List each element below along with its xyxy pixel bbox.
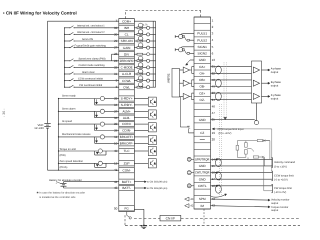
internal rail from scaler	[180, 97, 188, 127]
svg-text:A-CLR: A-CLR	[122, 72, 132, 76]
receiver triangle A-phase	[253, 67, 259, 73]
photocoupler SIGN	[175, 47, 194, 55]
pin 6 cell SIGN2 row 5	[194, 50, 214, 56]
CZ open collector transistor	[187, 126, 194, 133]
input switch bus	[64, 28, 66, 87]
svg-text:(0 to ±10V): (0 to ±10V)	[274, 165, 287, 168]
CN I/F label box	[160, 215, 181, 221]
switch and wire for GAIN input	[64, 44, 119, 48]
svg-text:Internal vel. cmd select 2: Internal vel. cmd select 2	[77, 31, 105, 34]
svg-text:OZ+: OZ+	[199, 91, 205, 95]
svg-text:CWTL/TRQR: CWTL/TRQR	[195, 171, 210, 175]
svg-text:50: 50	[114, 206, 118, 210]
svg-text:CL: CL	[125, 33, 129, 37]
pin 8 cell CWL	[116, 85, 135, 90]
CCW torque pair wires	[211, 172, 273, 180]
svg-text:• CN I/F Wiring for Velocity C: • CN I/F Wiring for Velocity Control	[3, 10, 77, 15]
svg-text:is installed at the controller: is installed at the controller side	[39, 196, 76, 199]
label CCW torque limit	[271, 171, 294, 182]
svg-text:OA-: OA-	[199, 71, 205, 75]
resistor and photocoupler for C-MODE	[134, 63, 155, 69]
label battery for absolute encoder	[49, 179, 82, 184]
pin 35 cell S-RDY+	[114, 96, 134, 101]
svg-text:CWTL: CWTL	[198, 184, 207, 188]
pin 17 cell GND row 24	[194, 176, 215, 181]
svg-text:ZEROSPD: ZEROSPD	[120, 59, 134, 63]
pin 9 cell CCWL	[116, 78, 135, 83]
velocity monitor output	[211, 199, 290, 205]
pin 16 cell CWTL/TRQR row 23	[194, 169, 215, 174]
open collector transistor box BRKOFF	[148, 136, 156, 145]
pin 13 cell GND row 6	[194, 57, 215, 63]
svg-text:43: 43	[190, 198, 193, 201]
pin 29 cell SRV-ON	[114, 38, 134, 43]
title	[3, 10, 77, 15]
svg-text:output: output	[271, 209, 278, 212]
pin 50 cell FG	[114, 206, 134, 211]
connector CN I/F left column outline	[119, 19, 135, 212]
analog input amp SPR	[187, 157, 194, 161]
svg-text:output: output	[271, 202, 278, 205]
switch and wire for CL input	[64, 31, 119, 35]
switch and wire for C-MODE input	[64, 64, 119, 68]
svg-text:BRKOFF-: BRKOFF-	[120, 142, 134, 146]
open collector transistor box S-RDY	[148, 97, 156, 106]
page number	[2, 108, 6, 117]
resistor and photocoupler for GAIN	[134, 43, 155, 49]
monitor amp IM	[185, 204, 194, 208]
cable shield arrow bottom	[211, 194, 227, 197]
svg-text:At-speed: At-speed	[62, 120, 73, 123]
analog input amp CWTL18	[187, 184, 194, 188]
wire ZSP pin to box	[134, 162, 148, 164]
connector CN I/F right column outline	[194, 17, 211, 209]
svg-text:OZ-: OZ-	[200, 98, 205, 102]
dashed column continuation	[203, 209, 205, 225]
svg-text:Internal vel. cmd select 1: Internal vel. cmd select 1	[77, 25, 105, 28]
svg-text:(P10A): (P10A)	[60, 166, 68, 169]
pin 37 cell ALM+	[114, 109, 134, 114]
svg-text:4.7k: 4.7k	[143, 24, 148, 27]
battery VDC 12-24V	[34, 123, 50, 130]
resistor and photocoupler for CWL	[134, 83, 155, 89]
input arrow CWTL16	[215, 172, 217, 174]
B-phase output arrow	[262, 81, 282, 87]
pin 32 cell C-MODE	[114, 65, 134, 70]
open collector transistor box ALM	[148, 110, 156, 119]
svg-text:FG: FG	[124, 207, 129, 211]
relay coil and diode for At-speed output	[58, 120, 119, 130]
pin 41 cell COM-	[114, 168, 134, 173]
line receiver box	[252, 61, 262, 103]
svg-text:BRKOFF+: BRKOFF+	[120, 135, 134, 139]
pin 23 cell OZ+ row 11	[194, 90, 215, 96]
svg-text:BATT-: BATT-	[122, 186, 131, 190]
svg-text:42: 42	[190, 205, 193, 208]
svg-text:Scaler: Scaler	[166, 74, 170, 84]
svg-text:CW torque limit: CW torque limit	[274, 187, 292, 190]
pin 1 cell blank row 0	[194, 17, 214, 22]
pin 11 cell BRKOFF+	[114, 134, 134, 139]
DIV fork wire from ZEROSPD switch	[112, 53, 156, 61]
resistor and photocoupler for CL	[134, 30, 155, 36]
pin nc cell blank row 20	[194, 148, 211, 150]
relay output common rail	[58, 99, 59, 171]
resistor and photocoupler for INH	[134, 23, 155, 29]
pin 48 cell OB+ row 9	[194, 77, 215, 82]
label CW torque limit	[271, 184, 292, 194]
svg-text:GND: GND	[199, 58, 207, 62]
svg-text:OB-: OB-	[199, 85, 205, 89]
enclosure dashed border A	[134, 218, 300, 220]
svg-text:12~24V: 12~24V	[34, 126, 44, 130]
svg-text:ZSP: ZSP	[124, 162, 130, 166]
pin 31 cell A-CLR	[114, 71, 134, 76]
pin 4 cell PULS2 row 3	[194, 37, 214, 42]
svg-text:Servo alarm: Servo alarm	[62, 107, 75, 110]
svg-text:CCW overtravel inhibit: CCW overtravel inhibit	[78, 77, 103, 80]
svg-text:output: output	[271, 71, 279, 74]
pin 42 cell IM row 28	[194, 202, 215, 209]
svg-text:INH: INH	[124, 26, 129, 30]
svg-text:GND: GND	[199, 177, 207, 181]
svg-text:to CN SIG.(9th pin): to CN SIG.(9th pin)	[147, 181, 168, 184]
A-phase output arrow	[262, 68, 282, 74]
CW torque wires	[211, 158, 273, 194]
svg-text:output: output	[271, 84, 279, 87]
pin 20 cell &#8212; row 18	[194, 136, 215, 141]
pin 7 cell COM+	[116, 19, 135, 24]
relay coil and diode for Servo-ready output	[58, 95, 119, 105]
svg-text:Servo-ready: Servo-ready	[62, 95, 76, 98]
pin 22 cell OA- row 8	[194, 70, 215, 75]
svg-text:Battery for absolute encoder: Battery for absolute encoder	[49, 179, 82, 182]
svg-text:SIGN1: SIGN1	[198, 45, 208, 49]
GND arrow into scaler	[186, 60, 194, 65]
svg-text:OB+: OB+	[199, 78, 205, 82]
pin 14 cell SPR/TRQR row 21	[194, 156, 215, 162]
svg-text:SIGN2: SIGN2	[198, 52, 208, 56]
Z-phase output arrow	[262, 94, 282, 100]
wire COM+ to battery	[48, 21, 119, 123]
svg-text:TLC: TLC	[124, 149, 131, 153]
resistor and photocoupler for SRV-ON	[134, 36, 155, 42]
resistor and photocoupler for A-CLR	[134, 69, 155, 75]
svg-text:S-RDY-: S-RDY-	[121, 103, 133, 107]
pin 47 cell blank row 14	[194, 110, 215, 115]
pin 2 cell blank row 1	[194, 24, 214, 29]
pin 38 cell COIN-	[114, 128, 134, 133]
wires BRKOFF pins to box	[134, 137, 148, 143]
pin 28 cell DIV	[114, 52, 134, 57]
shield dotted lines lower	[219, 104, 221, 196]
pin 44 cell BATT+	[114, 179, 134, 184]
svg-text:PULS2: PULS2	[197, 38, 207, 42]
pin 3 cell PULS1 row 2	[194, 30, 214, 36]
pin 19 cell CZ row 17	[194, 130, 215, 136]
pin 26 cell ZEROSPD	[114, 58, 134, 63]
svg-text:COIN-: COIN-	[122, 129, 131, 133]
svg-text:CWL: CWL	[123, 85, 130, 89]
input arrow CWTL18	[215, 185, 217, 187]
svg-text:Alarm clear: Alarm clear	[82, 71, 95, 74]
pin 46 cell blank row 13	[194, 103, 215, 108]
svg-text:C-MODE: C-MODE	[121, 66, 133, 70]
open collector transistor box ZSP	[148, 159, 156, 168]
cable shield dotted lines	[224, 63, 227, 120]
svg-text:PULS1: PULS1	[197, 32, 207, 36]
svg-text:BATT+: BATT+	[122, 180, 132, 184]
battery for absolute encoder	[56, 181, 119, 188]
pin 30 cell CL	[114, 32, 134, 37]
scaler block	[172, 69, 180, 98]
svg-text:S-RDY+: S-RDY+	[121, 97, 133, 101]
svg-text:CZ: CZ	[200, 131, 204, 135]
svg-text:CCW torque limit input: CCW torque limit input	[218, 128, 244, 131]
photocoupler PULS	[175, 34, 194, 42]
resistor and photocoupler for ZEROSPD	[134, 56, 155, 62]
pin nc cell blank row 16	[194, 122, 211, 124]
open collector transistor box COIN	[148, 123, 156, 132]
svg-text:(0 to +10V): (0 to +10V)	[219, 132, 232, 135]
shielded cable dashed link (top)	[125, 10, 200, 18]
open collector transistor box TLC	[148, 146, 156, 155]
pin 36 cell ALM-	[114, 115, 134, 120]
svg-text:CCWL: CCWL	[122, 79, 131, 83]
svg-text:ALM+: ALM+	[123, 110, 131, 114]
note text	[37, 191, 86, 199]
svg-text:Control mode switching: Control mode switching	[79, 64, 106, 67]
pin nc cell blank row 26	[194, 188, 211, 190]
twisted pair cable A-phase	[211, 66, 252, 74]
svg-text:47: 47	[212, 111, 216, 115]
svg-text:(P09): (P09)	[60, 154, 66, 157]
pin 5 cell SIGN1 row 4	[194, 44, 214, 49]
svg-text:OA+: OA+	[199, 65, 205, 69]
svg-text:Fr.gear/DivGt gain switching: Fr.gear/DivGt gain switching	[75, 44, 107, 47]
wires BATT to CN SIG	[134, 181, 167, 184]
relay coil and diode for Mechanical brake release output	[58, 133, 119, 143]
pin 40 cell TLC	[114, 148, 134, 153]
receiver triangle Z-phase	[253, 93, 259, 99]
label velocity command input	[271, 158, 295, 169]
pin 10 cell BRKOFF-	[114, 141, 134, 146]
label Scaler	[166, 74, 170, 84]
switch and wire for INH input	[64, 25, 119, 29]
svg-text:19: 19	[212, 131, 216, 135]
svg-text:Velocity command: Velocity command	[274, 161, 296, 164]
svg-text:20: 20	[212, 138, 216, 142]
wires ALM pins to box	[134, 111, 148, 117]
pin nc cell blank row 19	[194, 142, 211, 144]
line driver B-phase	[180, 80, 195, 87]
receiver triangle B-phase	[253, 80, 259, 86]
analog input amp CWTL16	[187, 171, 194, 175]
svg-text:Speed zero clamp (P48): Speed zero clamp (P48)	[79, 58, 106, 61]
switch and wire for CWL input	[64, 84, 119, 88]
svg-text:Servo-ON: Servo-ON	[82, 38, 93, 41]
svg-text:(-10 to 0V): (-10 to 0V)	[274, 191, 286, 194]
pin 12 cell ZSP	[114, 161, 134, 166]
svg-text:GND: GND	[199, 118, 207, 122]
line driver A-phase	[180, 67, 195, 74]
torque monitor output	[211, 206, 289, 213]
svg-text:SPM: SPM	[199, 197, 206, 201]
relay coil and diode for ZSP output	[58, 160, 119, 169]
switch and wire for CCWL input	[64, 77, 119, 81]
svg-text:Mechanical brake release: Mechanical brake release	[62, 133, 91, 136]
pin 27 cell GAIN	[114, 45, 134, 50]
enclosure dashed border B	[125, 215, 300, 225]
pin 24 cell OZ- row 12	[194, 96, 215, 102]
svg-text:COM+: COM+	[122, 19, 131, 23]
svg-text:COM-: COM-	[122, 168, 130, 172]
line driver Z-phase	[180, 93, 195, 100]
svg-text:Torque in-Limit: Torque in-Limit	[60, 148, 77, 151]
svg-text:13: 13	[212, 58, 216, 62]
earth ground symbol	[141, 226, 147, 229]
twisted pair cable B-phase	[211, 79, 252, 87]
svg-text:CN I/F: CN I/F	[166, 217, 176, 221]
svg-text:output: output	[271, 98, 279, 101]
svg-text:to CN SIG.(6th pin): to CN SIG.(6th pin)	[147, 187, 168, 190]
FG bottom lead with terminal	[127, 212, 132, 219]
velocity command potentiometer circuit	[236, 139, 270, 166]
twisted pair cable Z-phase	[211, 92, 252, 100]
svg-text:SRV-ON: SRV-ON	[121, 39, 133, 43]
svg-text:46: 46	[212, 104, 216, 108]
svg-text:In case the battery for absolu: In case the battery for absolute encoder	[39, 191, 85, 194]
pin 34 cell S-RDY-	[114, 102, 134, 107]
svg-text:CCW torque limit: CCW torque limit	[274, 174, 294, 177]
svg-text:GAIN: GAIN	[123, 46, 131, 50]
switch and wire for ZEROSPD input	[64, 58, 119, 62]
relay coil and diode for TLC output	[58, 148, 119, 157]
wire TLC pin to box	[134, 150, 148, 152]
pin 43 cell SPM row 27	[194, 196, 215, 202]
svg-text:- 36 -: - 36 -	[2, 108, 6, 117]
monitor amp SPM	[185, 197, 194, 201]
svg-text:IM: IM	[200, 204, 204, 208]
svg-text:ALM-: ALM-	[123, 116, 130, 120]
wire GND25 to shield terminal	[211, 103, 259, 125]
svg-text:CW overtravel inhibit: CW overtravel inhibit	[79, 84, 102, 87]
wires S-RDY pins to box	[134, 99, 148, 105]
svg-text:Zero speed detection: Zero speed detection	[60, 160, 84, 163]
switch and wire for SRV-ON input	[64, 38, 119, 42]
wire FG to earth	[134, 209, 144, 226]
pin 33 cell INH	[114, 25, 134, 30]
pin 18 cell CWTL row 25	[194, 183, 215, 189]
wires COIN pins to box	[134, 124, 148, 130]
svg-text:GND: GND	[199, 164, 207, 168]
pin 15 cell GND row 22	[194, 163, 215, 169]
label 4.7k	[143, 24, 148, 27]
resistor and photocoupler for CCWL	[134, 76, 155, 82]
pin 21 cell OA+ row 7	[194, 63, 215, 69]
pin 39 cell COIN+	[114, 122, 134, 127]
wire battery minus to COM-	[48, 128, 119, 170]
relay coil and diode for Servo alarm output	[58, 107, 119, 117]
svg-text:COIN+: COIN+	[122, 122, 132, 126]
pin 45 cell BATT-	[114, 185, 134, 190]
pin 49 cell OB- row 10	[194, 83, 215, 89]
pin 25 cell GND row 15	[194, 116, 215, 122]
switch and wire for A-CLR input	[64, 71, 119, 75]
velocity command pair wires	[211, 159, 273, 167]
photocoupler supply rails	[134, 21, 155, 87]
svg-text:SPR/TRQR: SPR/TRQR	[195, 158, 210, 162]
input arrow SPR	[215, 158, 217, 160]
CCW torque limit input wire	[212, 128, 272, 171]
svg-text:( 0 to +10V): ( 0 to +10V)	[274, 179, 288, 182]
